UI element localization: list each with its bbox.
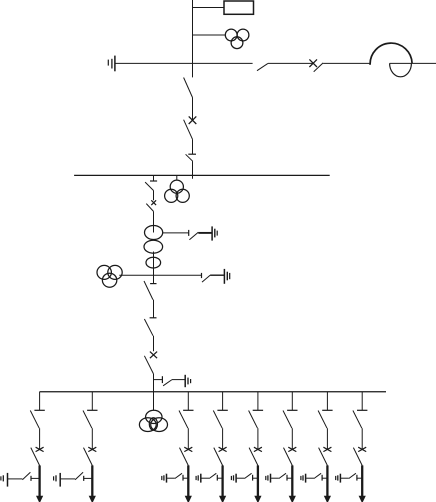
feeder 3: wire from busbar 3 <box>187 392 189 411</box>
earthing switch blade <box>202 275 210 282</box>
feeder 4: earthing switch blade <box>209 473 216 478</box>
wire through busbar 3 to trefoil <box>153 374 155 411</box>
feeder 5: earthing switch contact bar <box>252 475 254 481</box>
3-winding transformer (trefoil, one up two down) under busbar 2 <box>165 180 190 202</box>
feeder 1: wire to cable <box>31 477 39 479</box>
feeder 6: wire <box>291 428 293 449</box>
feeder 4: wire <box>222 428 224 449</box>
load-break switch contact bar <box>150 180 157 182</box>
feeder 8: outgoing cable (bold) <box>361 465 363 496</box>
load-break switch blade <box>144 319 153 336</box>
earthing switch blade <box>163 380 172 386</box>
feeder 2: load arrow head <box>89 496 96 502</box>
feeder 4: wire from earth <box>201 477 209 479</box>
feeder 2: wire to cable <box>84 477 92 479</box>
feeder 5: earthing switch blade <box>245 473 252 478</box>
circuit breaker X on line 1 <box>309 59 317 67</box>
feeder 7: load-break switch contact bar <box>322 409 332 411</box>
disconnector blade <box>184 120 193 140</box>
wire: stub to station transformer <box>176 175 178 180</box>
wire: neutral branch from transformer <box>163 232 189 234</box>
feeder 8: disconnector blade <box>353 448 362 466</box>
feeder 4: load arrow head <box>219 496 226 502</box>
feeder 2: wire from earth <box>61 478 75 480</box>
feeder 2: wire from busbar 3 <box>91 392 93 411</box>
feeder 1: load arrow head <box>36 496 43 502</box>
earthing switch contact bar <box>188 230 190 236</box>
earthing switch contact bar <box>161 376 163 383</box>
circuit breaker X <box>150 352 157 359</box>
feeder 5: wire to cable <box>253 477 258 479</box>
3-winding transformer (trefoil, two up one down) at top <box>225 29 249 48</box>
feeder 3: outgoing cable (bold) <box>187 465 189 496</box>
feeder 1: earthing switch blade <box>22 472 30 480</box>
feeder 1: earthing switch contact bar <box>30 476 32 481</box>
feeder 2: wire <box>91 428 93 449</box>
external grid / feeder curl: large arc <box>370 43 412 65</box>
wire <box>153 300 155 318</box>
earth electrode (left) <box>108 56 115 72</box>
feeder 3: load-break switch contact bar <box>183 409 193 411</box>
feeder 5: circuit breaker X (flat) <box>254 447 262 451</box>
feeder 3: earth electrode <box>162 474 167 483</box>
wire <box>192 98 194 121</box>
earthing switch contact bar <box>201 273 203 278</box>
feeder 6: earth electrode <box>266 474 271 483</box>
wire to earth <box>210 274 224 276</box>
feeder 7: earthing switch blade <box>314 473 321 478</box>
feeder 5: outgoing cable (bold) <box>257 465 259 496</box>
feeder 1: earth electrode <box>1 473 8 487</box>
disconnector blade (open) on line 1 <box>257 63 268 70</box>
feeder 5: wire from busbar 3 <box>257 392 259 411</box>
load-break switch contact bar <box>150 317 157 319</box>
feeder 1: circuit breaker X (flat) <box>36 447 44 451</box>
feeder 3: circuit breaker X (flat) <box>184 447 192 451</box>
load-break switch blade <box>186 154 193 161</box>
wire: line 1 left segment <box>115 62 253 64</box>
wire: stub to auxiliary transformer <box>193 34 226 36</box>
feeder 4: earth electrode <box>196 474 201 483</box>
feeder 8: earthing switch blade <box>349 473 356 478</box>
feeder 4: load-break switch blade <box>213 411 222 429</box>
feeder 8: load-break switch blade <box>353 411 362 429</box>
feeder 2: circuit breaker X (flat) <box>88 447 96 451</box>
feeder 7: wire from earth <box>306 477 314 479</box>
load-break switch contact bar <box>188 153 196 155</box>
feeder 8: load-break switch contact bar <box>357 409 367 411</box>
wire <box>153 191 155 201</box>
feeder 7: circuit breaker X (flat) <box>323 447 331 451</box>
feeder 6: disconnector blade <box>284 448 293 466</box>
metering box rectangle <box>224 1 254 14</box>
load-break switch contact bar <box>150 283 156 285</box>
feeder 4: wire to cable <box>218 477 223 479</box>
busbar 2 <box>74 174 330 176</box>
feeder 7: wire from busbar 3 <box>326 392 328 411</box>
feeder 3: wire from earth <box>167 477 175 479</box>
load-break switch blade <box>144 281 153 300</box>
feeder 8: wire from busbar 3 <box>361 392 363 411</box>
transformer tertiary winding (small circle) <box>146 257 161 268</box>
disconnector blade (open) right of breaker <box>314 63 323 72</box>
wire <box>192 139 194 154</box>
feeder 6: earthing switch contact bar <box>286 475 288 481</box>
earth electrode <box>185 375 190 387</box>
feeder 2: load-break switch blade <box>83 411 92 429</box>
feeder 8: earthing switch contact bar <box>356 475 358 481</box>
wire: earthing branch above busbar 3 <box>154 379 163 381</box>
wire to earth (bold) <box>198 232 212 234</box>
disconnector blade <box>144 356 153 374</box>
wire into transformer <box>153 211 155 232</box>
feeder 3: earthing switch blade <box>175 473 182 478</box>
feeder 8: wire <box>361 428 363 449</box>
feeder 1: load-break switch contact bar <box>34 409 44 411</box>
wire: line 1 segment to grid symbol <box>323 62 370 64</box>
3-winding transformer with tertiary (trefoil + centre ellipse) under busbar 3 <box>139 410 167 431</box>
wire: stub to metering box <box>193 7 225 9</box>
feeder 2: earthing switch blade <box>75 472 83 480</box>
wire <box>153 336 155 352</box>
external grid / feeder curl: small lower arc <box>390 63 412 76</box>
circuit breaker X <box>189 116 197 124</box>
feeder 7: outgoing cable (bold) <box>326 465 328 496</box>
earth electrode <box>212 226 217 240</box>
feeder 5: load-break switch contact bar <box>253 409 263 411</box>
feeder 6: load-break switch contact bar <box>287 409 297 411</box>
feeder 7: wire <box>326 428 328 449</box>
feeder 8: wire from earth <box>341 477 349 479</box>
feeder 7: earth electrode <box>301 474 306 483</box>
wire through tertiary down to earthing switch <box>153 252 155 284</box>
disconnector blade below line 1 <box>184 78 193 98</box>
feeder 5: wire <box>257 428 259 449</box>
feeder 4: load-break switch contact bar <box>217 409 227 411</box>
feeder 4: circuit breaker X (flat) <box>219 447 227 451</box>
feeder 4: earthing switch contact bar <box>216 475 218 481</box>
feeder 7: disconnector blade <box>319 448 328 466</box>
feeder 5: load arrow head <box>254 496 261 502</box>
disconnector blade <box>146 204 153 212</box>
feeder 4: disconnector blade <box>214 448 223 466</box>
wire: line 1 middle segment <box>268 62 313 64</box>
feeder 6: wire from earth <box>271 477 279 479</box>
feeder 7: load-break switch blade <box>318 411 327 429</box>
feeder 3: disconnector blade <box>180 448 189 466</box>
feeder 6: wire from busbar 3 <box>291 392 293 411</box>
feeder 3: load-break switch blade <box>179 411 188 429</box>
earth electrode <box>224 269 229 284</box>
feeder 3: wire to cable <box>183 477 188 479</box>
busbar 3 <box>40 391 387 393</box>
feeder 2: load-break switch contact bar <box>87 409 97 411</box>
wire: main incoming vertical from top edge <box>192 0 194 77</box>
feeder 5: load-break switch blade <box>249 411 258 429</box>
feeder 4: wire from busbar 3 <box>222 392 224 411</box>
feeder 1: wire <box>39 428 41 449</box>
feeder 4: outgoing cable (bold) <box>221 465 223 496</box>
feeder 8: load arrow head <box>359 496 366 502</box>
feeder 2: disconnector blade <box>84 448 93 466</box>
feeder 8: circuit breaker X (flat) <box>358 447 366 451</box>
feeder 2: outgoing cable (bold) <box>91 465 93 496</box>
wire into busbar 2 <box>192 161 194 179</box>
feeder 6: outgoing cable (bold) <box>291 465 293 496</box>
wire: branch from trefoil across chain <box>119 274 201 276</box>
feeder 3: wire <box>187 428 189 449</box>
feeder 2: earthing switch contact bar <box>83 476 85 481</box>
feeder 6: circuit breaker X (flat) <box>288 447 296 451</box>
feeder 7: load arrow head <box>324 496 331 502</box>
feeder 8: earth electrode <box>336 474 341 483</box>
feeder 6: wire to cable <box>287 477 292 479</box>
load-break switch blade <box>145 182 153 190</box>
feeder 1: outgoing cable (bold) <box>38 465 40 496</box>
feeder 7: wire to cable <box>322 477 327 479</box>
wire to earth <box>172 379 185 381</box>
feeder 1: wire from busbar 3 <box>39 392 41 411</box>
3-winding transformer (trefoil) on branch <box>97 265 122 287</box>
transformer winding 1 (upper circle) <box>145 226 163 240</box>
circuit breaker X (small) <box>151 200 156 205</box>
feeder 5: wire from earth <box>237 477 245 479</box>
feeder 1: wire from earth <box>8 478 22 480</box>
earthing switch blade <box>189 232 198 240</box>
feeder 8: wire to cable <box>357 477 362 479</box>
feeder 3: load arrow head <box>185 496 192 502</box>
feeder 5: disconnector blade <box>249 448 258 466</box>
feeder 6: load arrow head <box>289 496 296 502</box>
transformer winding 2 (lower circle) <box>144 240 163 253</box>
feeder 1: disconnector blade <box>31 448 40 466</box>
feeder 7: earthing switch contact bar <box>321 475 323 481</box>
feeder 6: earthing switch blade <box>279 473 286 478</box>
wire: stub below busbar 2 <box>153 175 155 181</box>
feeder 6: load-break switch blade <box>283 411 292 429</box>
wire: line 1 over small arc to right edge <box>390 62 436 64</box>
feeder 5: earth electrode <box>231 474 236 483</box>
feeder 1: load-break switch blade <box>30 411 39 429</box>
feeder 2: earth electrode <box>54 473 61 487</box>
feeder 3: earthing switch contact bar <box>182 475 184 481</box>
